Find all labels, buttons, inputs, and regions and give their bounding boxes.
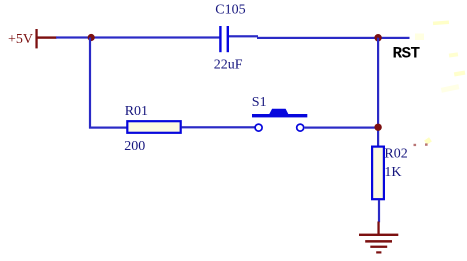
wire right vertical [377,38,379,147]
ground bar 3 [370,246,387,248]
junction node on top rail right [374,34,381,41]
svg-text:+5V: +5V [8,32,33,47]
svg-text:RST: RST [393,44,421,62]
wire top rail right segment [257,37,410,39]
ground bar 4 [376,251,381,253]
wire R02 to ground [378,200,380,223]
power +5V lead wire [37,36,57,38]
wire R01 to S1 [182,126,256,128]
svg-text:S1: S1 [252,95,267,110]
switch S1 [252,109,307,131]
junction node bottom right [374,124,381,131]
svg-text:R02: R02 [384,147,407,162]
wire top rail left segment [56,36,220,38]
wire S1 to right vertical [305,127,378,129]
power +5V bar symbol [35,29,37,48]
wire capacitor right stub [229,35,258,37]
svg-text:200: 200 [124,139,145,154]
junction node on top rail left [88,34,95,41]
ground stem [377,222,379,235]
capacitor C105 plates [219,26,229,52]
svg-text:22uF: 22uF [214,58,243,73]
ground bar 2 [365,240,392,243]
ground bar 1 [359,234,398,236]
wire left vertical [89,38,91,129]
resistor R01 [127,121,180,133]
svg-text:R01: R01 [125,104,148,119]
wire to R01 left [89,127,127,129]
resistor R02 [372,147,384,200]
svg-text:1K: 1K [384,165,401,180]
svg-text:C105: C105 [215,3,245,18]
